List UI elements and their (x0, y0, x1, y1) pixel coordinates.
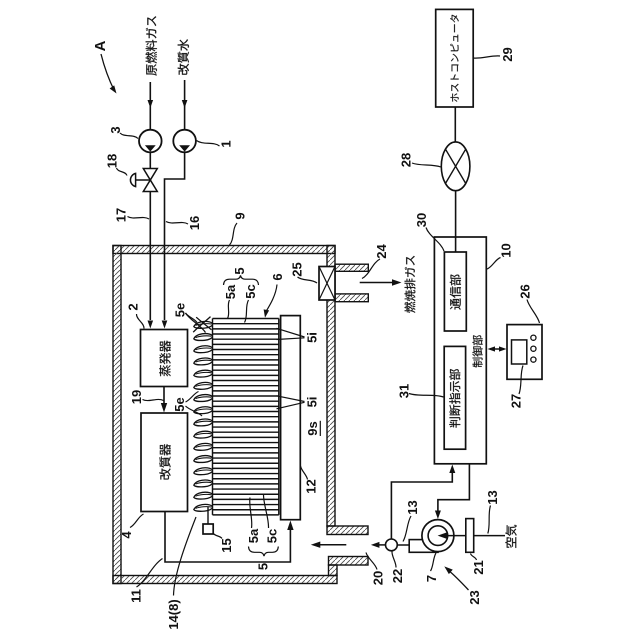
judgment unit box 31 判断指示部 (444, 346, 465, 449)
remote box 26 (507, 325, 542, 380)
exhaust duct lower wall (335, 294, 368, 302)
raw fuel gas text 原燃料ガス (146, 16, 157, 75)
svg-text:5i: 5i (305, 397, 320, 408)
svg-text:6: 6 (270, 273, 285, 280)
svg-text:3: 3 (108, 126, 123, 133)
svg-text:2: 2 (126, 303, 141, 310)
remote inner screen 27 (512, 340, 527, 364)
control unit text 制御部 (472, 335, 482, 367)
svg-text:A: A (92, 40, 109, 51)
coil top crossing (193, 317, 210, 333)
svg-text:31: 31 (397, 384, 412, 398)
svg-text:9: 9 (233, 212, 248, 219)
line antenna to controller (455, 191, 457, 252)
svg-text:5: 5 (232, 267, 247, 274)
pipe 11 from reformer to stack (165, 512, 290, 563)
blower 7 (409, 540, 438, 553)
svg-text:27: 27 (509, 394, 524, 408)
line host to antenna (454, 107, 456, 143)
valve 18 (bowtie) (149, 152, 151, 168)
svg-text:14(8): 14(8) (166, 599, 181, 629)
valve actuator (semicircle) (130, 173, 135, 186)
air duct step wall (329, 565, 338, 576)
arrow evaporator to reformer (163, 387, 165, 405)
evaporator 2 (box 蒸発器) (141, 330, 188, 387)
svg-text:7: 7 (424, 575, 439, 582)
svg-text:10: 10 (499, 243, 514, 257)
svg-text:18: 18 (105, 154, 120, 168)
igniter 15 (small box) (207, 507, 209, 525)
air duct upper wall (327, 526, 368, 535)
svg-text:30: 30 (414, 213, 429, 227)
svg-text:5e: 5e (172, 397, 187, 411)
svg-text:22: 22 (390, 569, 405, 583)
casing 9 top wall (113, 246, 335, 254)
burner coil 14 (194, 321, 213, 511)
svg-text:24: 24 (374, 244, 389, 259)
svg-text:5e: 5e (173, 303, 188, 317)
valve 22 (circle) (397, 544, 409, 546)
svg-text:5a: 5a (223, 284, 238, 299)
control line to blower (438, 464, 470, 511)
svg-text:1: 1 (219, 140, 234, 147)
svg-text:25: 25 (290, 262, 305, 276)
svg-text:5a: 5a (246, 528, 261, 543)
svg-text:23: 23 (467, 590, 482, 604)
svg-text:15: 15 (219, 538, 234, 552)
svg-text:5c: 5c (243, 284, 258, 298)
remote buttons (531, 335, 536, 340)
ventilator box 25 (crossed) (319, 267, 335, 301)
svg-text:17: 17 (114, 208, 129, 222)
casing 9 left wall (113, 246, 121, 584)
air arrow into casing (319, 544, 346, 546)
double arrow controller-remote (490, 348, 504, 350)
fuel cell stack 5 (cells) (213, 319, 279, 515)
exhaust duct upper wall (335, 264, 368, 271)
svg-text:28: 28 (399, 153, 414, 167)
casing 9 bottom wall (113, 576, 337, 584)
air duct lower wall (329, 557, 369, 566)
filter 21 (474, 535, 505, 537)
feed line fuel (149, 82, 151, 130)
sensor line valve22 to controller (391, 472, 452, 539)
controller box 10 (434, 237, 486, 464)
end plate 12 (281, 316, 301, 520)
svg-text:5: 5 (256, 563, 271, 570)
antenna symbol 28 (crossed ellipse) (441, 142, 470, 191)
svg-text:26: 26 (518, 284, 533, 298)
svg-text:13: 13 (485, 490, 500, 504)
exhaust arrow 燃焼排ガス (360, 282, 393, 284)
pump 1 (173, 130, 196, 153)
svg-text:9s: 9s (305, 421, 320, 435)
svg-text:11: 11 (129, 589, 144, 603)
svg-text:5c: 5c (265, 529, 280, 543)
reformer 4 (box 改質器) (141, 413, 188, 512)
casing 9 right wall (327, 246, 335, 527)
svg-text:19: 19 (129, 390, 144, 404)
svg-text:20: 20 (371, 571, 386, 585)
air text 空気 (505, 525, 516, 548)
svg-text:13: 13 (405, 500, 420, 514)
svg-text:5i: 5i (305, 332, 320, 343)
svg-text:21: 21 (471, 560, 486, 574)
host computer box 29 ホストコンピュータ (436, 9, 474, 107)
reform water text 改質水 (178, 39, 189, 74)
pipe 17 (fuel) (149, 192, 151, 321)
pump 3 (139, 130, 162, 153)
communication unit box 30 通信部 (444, 252, 466, 331)
feed line water (184, 80, 186, 130)
svg-text:16: 16 (187, 216, 202, 230)
svg-text:12: 12 (304, 479, 319, 493)
svg-text:4: 4 (119, 531, 134, 539)
pipe 16 (water) (165, 152, 185, 320)
svg-text:29: 29 (500, 47, 515, 61)
